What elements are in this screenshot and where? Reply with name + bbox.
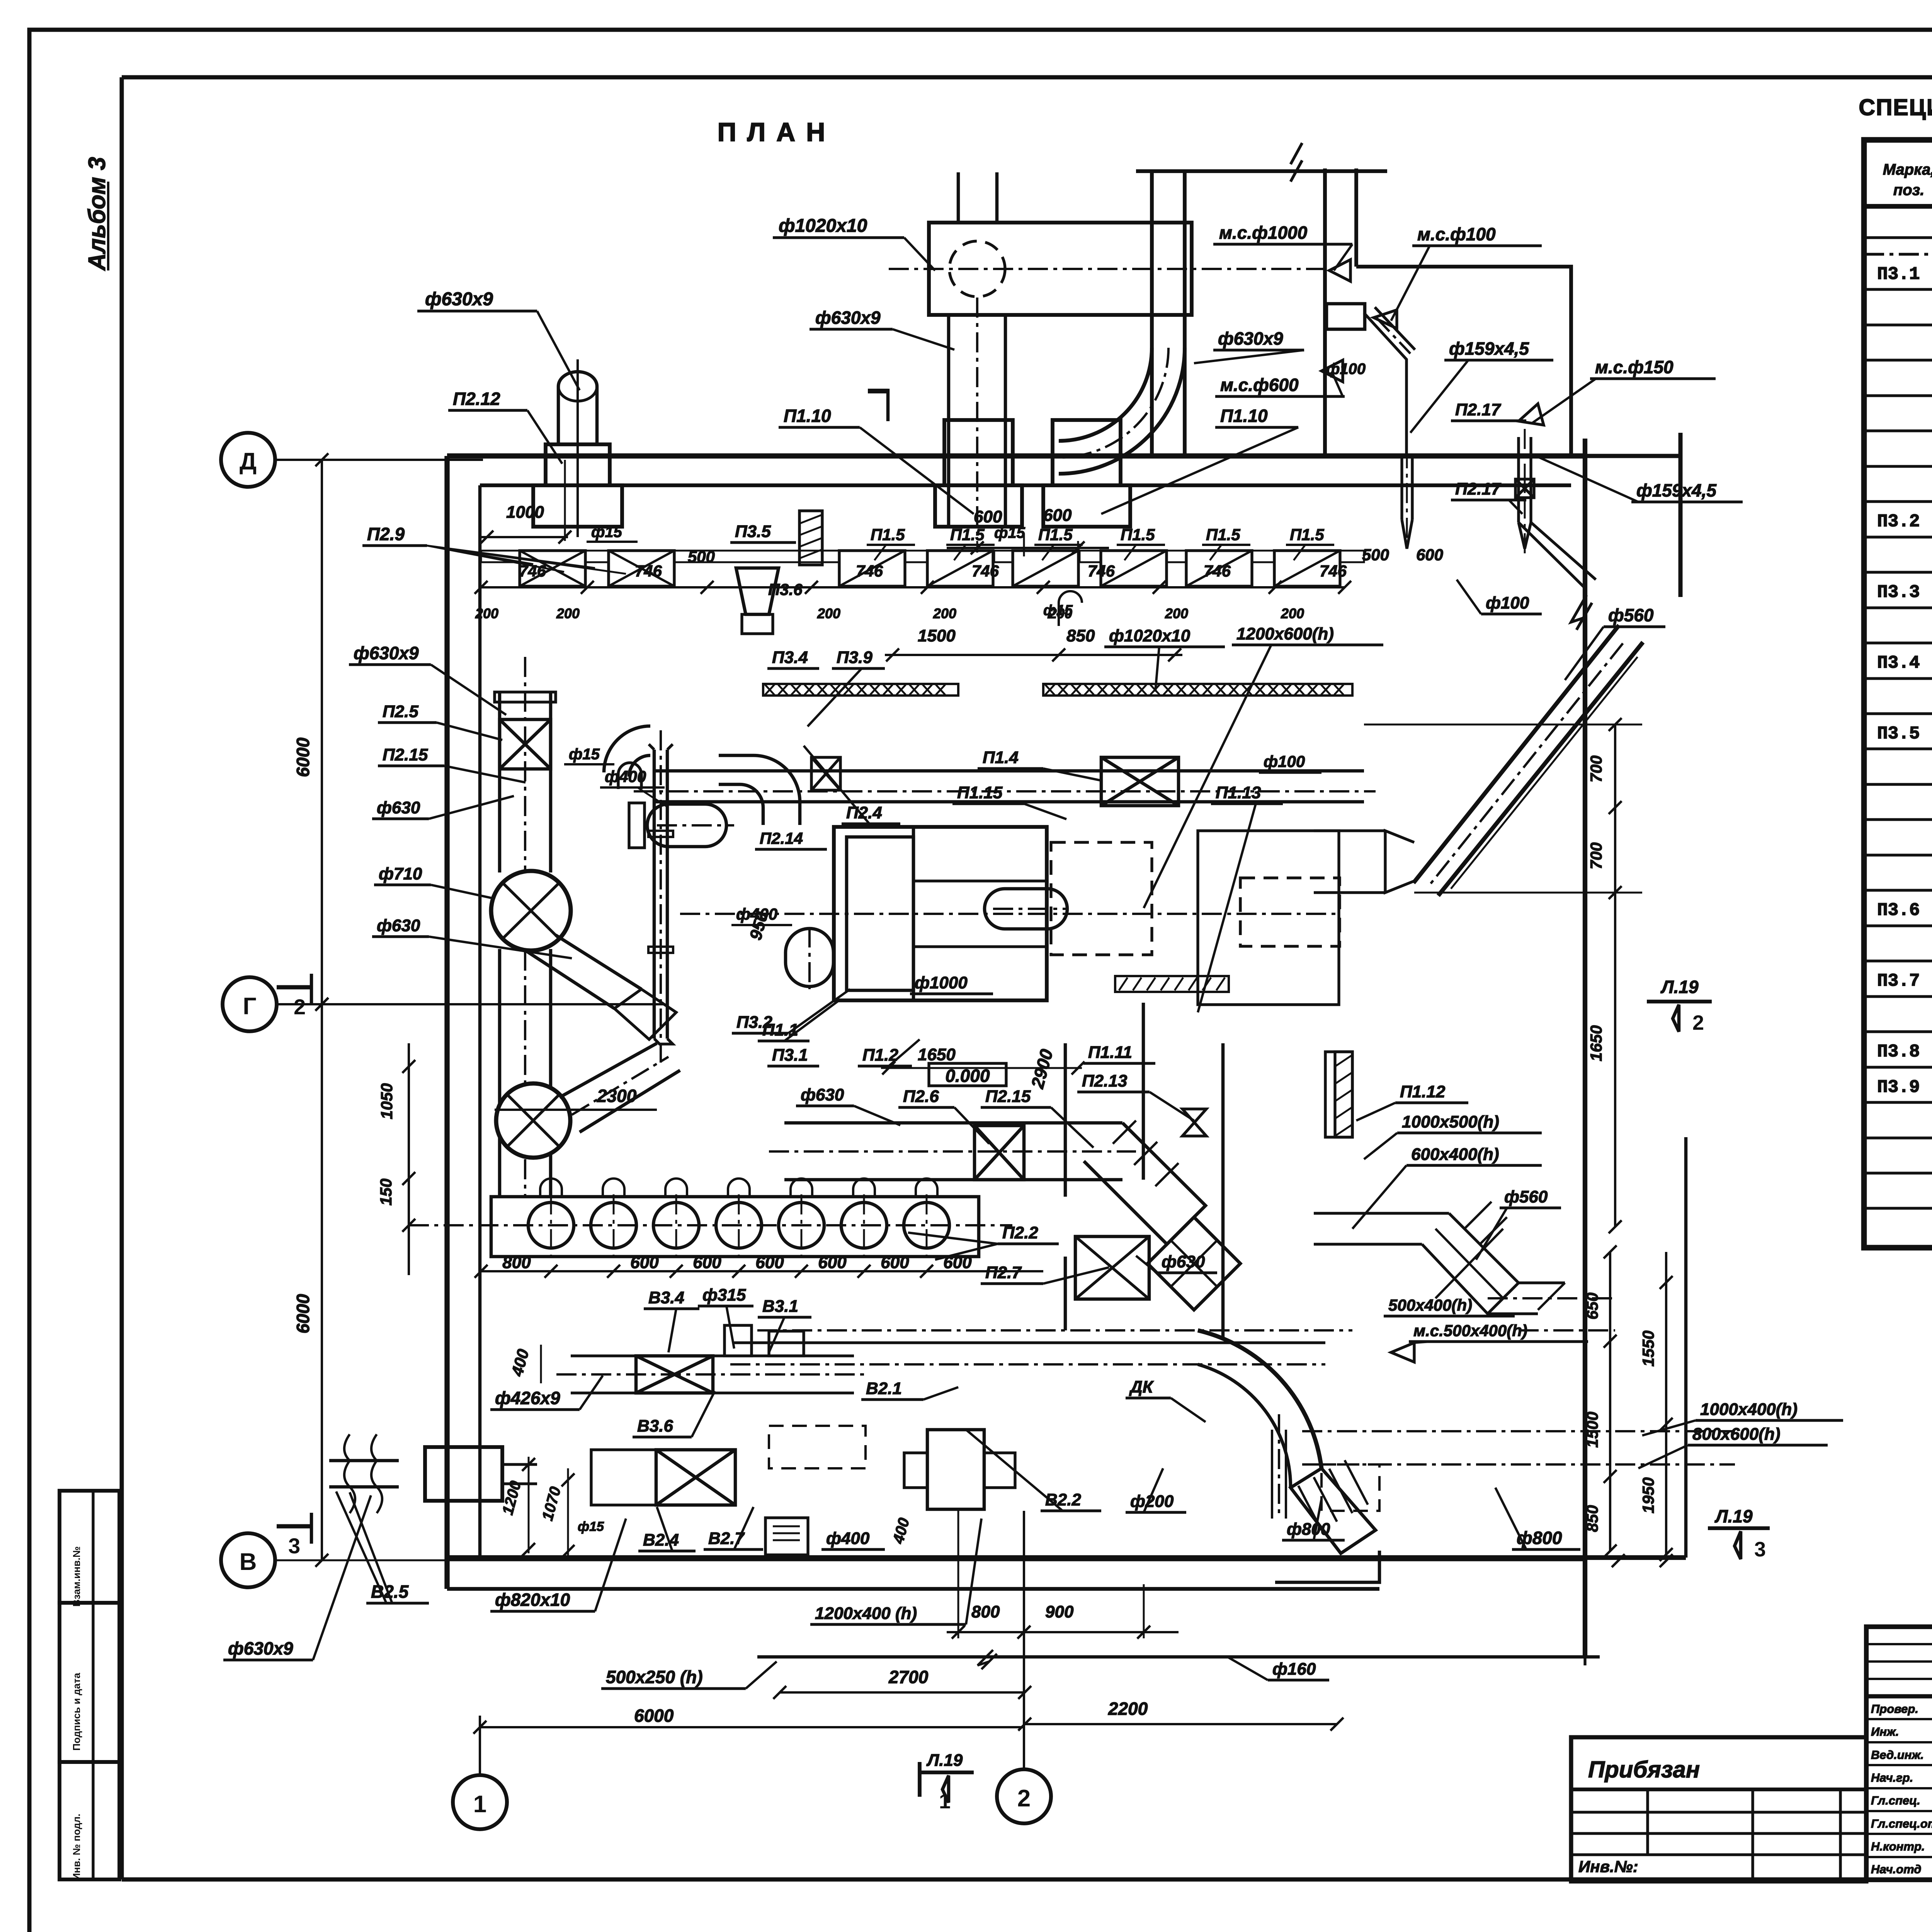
П2.13 bow-tie valve	[1182, 1109, 1206, 1136]
svg-text:П3.9: П3.9	[837, 648, 872, 667]
svg-text:ПЛАН: ПЛАН	[718, 117, 836, 147]
П1.10 flange left	[944, 420, 1013, 485]
svg-text:ф1020х10: ф1020х10	[779, 216, 867, 236]
svg-text:1000х500(h): 1000х500(h)	[1402, 1112, 1499, 1131]
П2.17 riser 2	[1517, 437, 1520, 522]
svg-text:м.с.500х400(h): м.с.500х400(h)	[1413, 1321, 1527, 1340]
svg-text:П1.11: П1.11	[1088, 1043, 1132, 1062]
В2 big damper	[656, 1450, 735, 1505]
chamber centerline	[889, 268, 1329, 270]
П2.2 outlet circles	[528, 1202, 574, 1248]
axis В circle	[221, 1533, 275, 1587]
svg-text:900: 900	[1045, 1602, 1074, 1621]
svg-text:200: 200	[933, 605, 956, 621]
svg-text:Прибязан: Прибязан	[1588, 1757, 1700, 1782]
П1.10 flange right	[1053, 420, 1121, 485]
hatch strip	[1115, 976, 1229, 992]
south lower strip	[757, 1655, 1600, 1659]
svg-text:6000: 6000	[634, 1706, 674, 1726]
ф560 diagonal duct	[1413, 625, 1619, 883]
svg-text:Д: Д	[240, 448, 257, 475]
svg-text:600: 600	[974, 507, 1002, 526]
svg-text:600: 600	[693, 1253, 721, 1272]
zigzag duct	[1314, 1212, 1449, 1214]
svg-text:П1.12: П1.12	[1400, 1082, 1446, 1101]
П1.4 damper X	[1101, 757, 1179, 806]
svg-text:3: 3	[288, 1534, 300, 1558]
svg-text:П2.15: П2.15	[383, 745, 428, 764]
svg-text:800х600(h): 800х600(h)	[1692, 1425, 1780, 1444]
svg-text:850: 850	[1583, 1505, 1601, 1532]
svg-text:Альбом 3: Альбом 3	[84, 157, 111, 271]
svg-text:150: 150	[377, 1179, 395, 1206]
fan circle 1	[491, 871, 571, 951]
horizontal duct into wall	[1314, 829, 1385, 832]
svg-text:Л.19: Л.19	[926, 1751, 963, 1770]
П2.4 damper box	[811, 757, 840, 790]
crosshatch strip mid	[763, 684, 958, 696]
svg-text:ф1000: ф1000	[915, 973, 968, 992]
svg-text:2: 2	[294, 995, 306, 1019]
svg-text:ф630: ф630	[377, 916, 420, 935]
svg-text:850: 850	[1066, 626, 1095, 645]
grille boxes П1.5 row	[520, 551, 585, 586]
svg-text:800: 800	[502, 1253, 531, 1272]
svg-text:П1.10: П1.10	[1220, 406, 1268, 426]
west wall outer	[444, 456, 449, 1589]
svg-text:200: 200	[1165, 605, 1188, 621]
svg-text:В3.6: В3.6	[637, 1417, 673, 1435]
dim col right 650/1500/850	[1609, 1252, 1611, 1551]
svg-text:П2.17: П2.17	[1455, 400, 1502, 419]
В2 system left pipes	[329, 1461, 399, 1487]
svg-text:ф630х9: ф630х9	[228, 1638, 293, 1658]
axis 2 circle	[997, 1769, 1051, 1823]
vertical duct from chamber	[947, 315, 951, 527]
svg-text:1000: 1000	[506, 503, 544, 522]
svg-text:Л.19: Л.19	[1660, 977, 1699, 997]
svg-text:700: 700	[1587, 755, 1605, 782]
break mark bottom	[978, 1650, 997, 1669]
left sidebar boxes	[60, 1491, 119, 1603]
north wall inner	[480, 483, 1571, 487]
svg-text:П3.7: П3.7	[1877, 971, 1920, 991]
svg-text:В2.1: В2.1	[866, 1379, 902, 1398]
small flange pair	[629, 803, 645, 848]
svg-text:П2.13: П2.13	[1082, 1071, 1127, 1090]
svg-text:П3.8: П3.8	[1877, 1042, 1920, 1062]
svg-text:1050: 1050	[378, 1083, 396, 1119]
svg-text:ф15: ф15	[578, 1519, 604, 1534]
П2.2 centerline	[409, 1224, 1012, 1226]
svg-text:СПЕЦИФИКАЦИЯ ОТОПИТЕЛЬНО - ВЕН: СПЕЦИФИКАЦИЯ ОТОПИТЕЛЬНО - ВЕНТИЛЯЦИОННО…	[1859, 94, 1932, 120]
svg-text:1200х600(h): 1200х600(h)	[1236, 624, 1334, 643]
svg-text:П2.14: П2.14	[760, 829, 803, 847]
vertical guides bottom	[957, 1509, 959, 1584]
П1.4 duct lines	[653, 769, 1364, 773]
dash-dot ducts right of zigzag	[1488, 1297, 1615, 1299]
svg-text:Подпись и дата: Подпись и дата	[71, 1673, 82, 1751]
wall step right bottom	[1275, 1551, 1379, 1582]
svg-text:ф630х9: ф630х9	[1218, 328, 1283, 349]
svg-text:ф560: ф560	[1608, 605, 1654, 625]
П2.2 duct rectangle	[491, 1197, 979, 1257]
м.с.ф100 flag	[1374, 310, 1397, 328]
0.000 boxed	[929, 1063, 1006, 1086]
svg-text:Провер.: Провер.	[1871, 1702, 1918, 1716]
svg-text:П2.6: П2.6	[903, 1087, 939, 1106]
svg-text:ф159х4,5: ф159х4,5	[1449, 338, 1529, 359]
svg-text:Н.контр.: Н.контр.	[1871, 1840, 1925, 1853]
svg-text:ф1020х10: ф1020х10	[1109, 626, 1190, 645]
svg-text:м.с.ф1000: м.с.ф1000	[1219, 223, 1308, 243]
upper duct shaft verticals	[1150, 171, 1154, 456]
east wall upper notch	[1356, 267, 1571, 456]
axis Д circle	[221, 433, 275, 487]
chamber dashed circle	[949, 241, 1005, 297]
svg-text:ф630х9: ф630х9	[425, 289, 493, 310]
east outer wall top	[1679, 433, 1683, 597]
svg-text:600х400(h): 600х400(h)	[1411, 1145, 1499, 1164]
svg-text:П2.2: П2.2	[1002, 1223, 1038, 1242]
dim line 746 row	[481, 586, 1345, 588]
svg-text:В3.1: В3.1	[762, 1297, 798, 1316]
svg-text:1: 1	[473, 1791, 486, 1818]
svg-text:2: 2	[1017, 1785, 1031, 1812]
svg-text:Гл.спец.отд: Гл.спец.отд	[1871, 1817, 1932, 1830]
П3.9 hatched block	[799, 511, 822, 565]
ф200 vertical pipe	[1278, 1414, 1280, 1519]
svg-text:1550: 1550	[1639, 1330, 1657, 1366]
svg-text:746: 746	[1320, 562, 1347, 580]
svg-text:Инв.№:: Инв.№:	[1578, 1857, 1638, 1876]
svg-text:П3.6: П3.6	[1877, 900, 1920, 920]
lower dash-dot ducts	[1302, 1430, 1735, 1432]
svg-text:Г: Г	[243, 993, 256, 1020]
svg-text:Вед.инж.: Вед.инж.	[1871, 1748, 1924, 1762]
svg-text:6000: 6000	[293, 1294, 313, 1333]
svg-text:600: 600	[755, 1253, 784, 1272]
stadium 2	[985, 889, 1067, 929]
hatched shaft П1.12	[1335, 1052, 1352, 1137]
svg-text:ф400: ф400	[826, 1529, 870, 1548]
transition to horizontal	[1385, 831, 1414, 893]
П2.5 damper	[500, 719, 551, 769]
svg-text:м.с.ф600: м.с.ф600	[1220, 375, 1299, 395]
П3.6 funnel	[736, 568, 779, 614]
dim col outer 1550/1950	[1665, 1252, 1667, 1554]
svg-text:П3.5: П3.5	[1877, 724, 1920, 744]
svg-text:м.с.ф150: м.с.ф150	[1595, 357, 1673, 377]
svg-text:В3.4: В3.4	[648, 1288, 684, 1307]
svg-text:П3.9: П3.9	[1877, 1077, 1920, 1097]
svg-text:2: 2	[1692, 1011, 1704, 1034]
svg-text:200: 200	[556, 605, 580, 621]
svg-text:6000: 6000	[293, 737, 313, 777]
svg-text:П1.5: П1.5	[1206, 526, 1240, 544]
svg-text:Инв. № подл.: Инв. № подл.	[71, 1814, 82, 1881]
svg-text:П3.4: П3.4	[772, 648, 808, 667]
dashed box 1	[1051, 842, 1152, 955]
corridor duct double walls	[653, 750, 656, 1039]
axis Г line	[277, 1003, 665, 1005]
dashed small boxes	[1321, 1464, 1379, 1511]
dims 700 700 1650 column	[1614, 724, 1616, 1227]
duct top flange	[495, 692, 556, 702]
title block outer	[1866, 1627, 1932, 1880]
axis Д line	[275, 459, 483, 461]
svg-text:ф820х10: ф820х10	[495, 1590, 570, 1610]
svg-text:500: 500	[1362, 546, 1389, 564]
svg-text:П1.5: П1.5	[1038, 526, 1073, 544]
interior verticals mid-plan	[1064, 1043, 1067, 1197]
П2.1 fan X	[1075, 1236, 1149, 1299]
ДК hatched diagonal	[1291, 1468, 1376, 1553]
svg-text:П3.1: П3.1	[1877, 264, 1920, 284]
section mark 3 at В	[277, 1524, 313, 1529]
П2.12 flange box	[546, 444, 610, 485]
svg-text:800: 800	[971, 1602, 1000, 1621]
top break mark	[1291, 143, 1302, 182]
right wall second	[1684, 1137, 1688, 1558]
svg-text:ф100: ф100	[1486, 594, 1529, 612]
svg-text:П2.12: П2.12	[453, 389, 500, 409]
svg-text:1950: 1950	[1639, 1477, 1657, 1513]
svg-text:ф100: ф100	[1326, 361, 1366, 378]
svg-text:П1.1: П1.1	[762, 1020, 798, 1039]
svg-text:ф400: ф400	[605, 767, 646, 786]
svg-text:3: 3	[1754, 1538, 1766, 1561]
svg-text:1650: 1650	[918, 1045, 956, 1064]
м.с.ф1000 flag	[1329, 260, 1350, 281]
Л.19/2 section symbol	[1647, 1000, 1712, 1003]
left attachment table	[1571, 1737, 1866, 1881]
svg-text:П1.5: П1.5	[1290, 526, 1324, 544]
diamond transition П2.1	[1148, 1217, 1240, 1310]
svg-text:В: В	[240, 1549, 257, 1575]
svg-text:П2.5: П2.5	[383, 702, 418, 721]
east verticals lower	[1583, 1558, 1586, 1665]
section mark I	[886, 389, 890, 421]
svg-text:П1.13: П1.13	[1216, 783, 1261, 802]
fan circle 2	[496, 1083, 570, 1158]
svg-text:200: 200	[817, 605, 840, 621]
fan unit П3.1 block	[834, 827, 1047, 1000]
south wall outer	[447, 1587, 1379, 1591]
П2.5 duct verticals	[498, 692, 502, 872]
svg-text:600: 600	[1416, 546, 1443, 564]
svg-text:1: 1	[939, 1790, 951, 1813]
top shaft horizontal	[1136, 169, 1387, 173]
dashed box 2	[1240, 878, 1340, 946]
spec table grid	[1864, 140, 1932, 1248]
svg-text:П3.6: П3.6	[768, 580, 803, 599]
svg-text:ф710: ф710	[379, 864, 422, 883]
svg-text:1500: 1500	[1583, 1412, 1601, 1447]
svg-text:2700: 2700	[888, 1667, 929, 1687]
svg-text:ф560: ф560	[1504, 1187, 1548, 1206]
water hatch box	[765, 1518, 808, 1555]
Л.19/1 section symbol	[918, 1762, 922, 1797]
svg-text:П3.5: П3.5	[735, 522, 771, 541]
svg-text:Гл.спец.: Гл.спец.	[1871, 1794, 1920, 1807]
svg-text:600: 600	[881, 1253, 909, 1272]
slanted pipe from wall	[1364, 313, 1406, 456]
dim col x1058	[408, 1043, 410, 1275]
dim row 800/600	[481, 1270, 1043, 1272]
svg-text:м.с.ф100: м.с.ф100	[1417, 224, 1496, 244]
stadium silencer 1	[647, 804, 726, 847]
west duct column lower run	[498, 949, 502, 1197]
svg-text:П2.15: П2.15	[985, 1087, 1031, 1106]
svg-text:2300: 2300	[597, 1086, 637, 1106]
svg-text:1200х400 (h): 1200х400 (h)	[815, 1604, 917, 1623]
svg-text:П3.4: П3.4	[1877, 653, 1920, 673]
svg-text:П2.4: П2.4	[846, 803, 882, 822]
svg-text:Нач.отд: Нач.отд	[1871, 1862, 1921, 1876]
svg-text:746: 746	[972, 562, 999, 580]
svg-text:ф15: ф15	[994, 524, 1026, 541]
svg-text:П1.5: П1.5	[950, 526, 985, 544]
svg-text:П2.9: П2.9	[367, 524, 405, 544]
В3 risers	[724, 1325, 752, 1356]
svg-text:П1.15: П1.15	[957, 783, 1003, 802]
wall niche box	[1327, 304, 1365, 329]
В3 duct band	[571, 1354, 854, 1357]
svg-text:ф315: ф315	[702, 1286, 746, 1304]
svg-text:ф160: ф160	[1272, 1660, 1316, 1679]
axis 1 circle	[453, 1775, 507, 1829]
svg-text:500х400(h): 500х400(h)	[1388, 1296, 1472, 1314]
svg-text:П3.3: П3.3	[1877, 582, 1920, 602]
svg-text:1000х400(h): 1000х400(h)	[1700, 1400, 1798, 1419]
В2.2 unit	[927, 1430, 984, 1509]
svg-text:ф159х4,5: ф159х4,5	[1636, 480, 1717, 500]
svg-text:ф426х9: ф426х9	[495, 1388, 560, 1408]
hatched wall pieces top	[481, 551, 520, 562]
west wall inner	[478, 485, 482, 1558]
water hatch right top	[1325, 1052, 1352, 1137]
corner duct west	[604, 726, 650, 772]
П2.17 riser pipe	[1400, 456, 1403, 520]
svg-text:500х250 (h): 500х250 (h)	[606, 1667, 703, 1687]
svg-text:650: 650	[1583, 1293, 1601, 1320]
svg-text:П1.10: П1.10	[784, 406, 831, 426]
elbow duct to П1.10 right	[1059, 348, 1185, 474]
svg-text:ф15: ф15	[591, 524, 622, 541]
axis В line	[275, 1560, 1584, 1561]
east wall	[1583, 439, 1587, 1658]
45 duct from fan1	[556, 935, 641, 989]
П2.12 roof stack pipe	[558, 372, 597, 444]
section mark 2 at Г	[277, 985, 313, 990]
bend piece	[614, 989, 676, 1039]
П2.2 connector stubs	[540, 1179, 562, 1197]
svg-text:Инж.: Инж.	[1871, 1725, 1899, 1738]
svg-text:200: 200	[1281, 605, 1304, 621]
solid box right	[1198, 831, 1339, 1005]
chamber box ф1020	[929, 223, 1192, 315]
svg-text:2200: 2200	[1108, 1699, 1148, 1719]
svg-text:П2.7: П2.7	[985, 1263, 1022, 1282]
svg-text:П1.4: П1.4	[983, 748, 1019, 767]
left vertical dim line with 6000s	[321, 460, 323, 1560]
svg-text:600: 600	[818, 1253, 847, 1272]
chamber stub up	[957, 172, 960, 223]
svg-text:600: 600	[1043, 506, 1072, 525]
svg-text:Взам.инв.№: Взам.инв.№	[71, 1546, 82, 1607]
slant duct lower right	[1519, 522, 1584, 587]
south wall inner	[447, 1555, 1686, 1560]
svg-text:ф15: ф15	[569, 746, 600, 763]
ф400 elbow duct right	[719, 755, 800, 825]
upper duct П2.6/П2.15 band	[784, 1121, 1122, 1125]
П2.9 crossed boxes	[520, 551, 585, 586]
svg-text:ф630х9: ф630х9	[815, 308, 881, 328]
svg-text:ф100: ф100	[1264, 752, 1305, 770]
svg-text:ф630: ф630	[801, 1085, 844, 1104]
svg-text:ф630х9: ф630х9	[354, 643, 419, 663]
svg-text:ф800: ф800	[1287, 1520, 1330, 1539]
svg-text:П3.2: П3.2	[1877, 512, 1920, 532]
svg-text:ДК: ДК	[1129, 1378, 1154, 1396]
svg-text:1500: 1500	[918, 626, 956, 645]
bottom duct В2.1	[757, 1329, 1352, 1332]
svg-text:П2.17: П2.17	[1455, 480, 1502, 498]
svg-text:200: 200	[475, 605, 498, 621]
svg-text:В2.4: В2.4	[643, 1531, 679, 1549]
svg-text:Нач.гр.: Нач.гр.	[1871, 1771, 1913, 1784]
svg-text:700: 700	[1587, 842, 1605, 869]
axis Г circle	[223, 977, 277, 1031]
Л.19/3 section symbol	[1708, 1526, 1770, 1530]
svg-text:П1.5: П1.5	[871, 526, 905, 544]
duct 45 up-right from fan2	[560, 1043, 657, 1097]
svg-text:600: 600	[630, 1253, 659, 1272]
vertical stadium П2.14	[786, 929, 833, 986]
svg-text:Л.19: Л.19	[1714, 1506, 1753, 1526]
svg-text:П3.1: П3.1	[772, 1046, 808, 1065]
ф15 valve small	[1059, 591, 1082, 626]
svg-text:ф15: ф15	[1043, 602, 1073, 619]
svg-text:Марка,: Марка,	[1883, 161, 1932, 178]
svg-text:П1.5: П1.5	[1121, 526, 1155, 544]
svg-text:поз.: поз.	[1893, 182, 1924, 199]
north wall outer	[447, 453, 1585, 458]
ф15 U-symbol	[618, 763, 641, 789]
svg-text:ф630: ф630	[377, 798, 420, 817]
В2 flange box	[425, 1447, 502, 1501]
svg-text:1650: 1650	[1587, 1025, 1605, 1061]
big curve duct ДК	[1198, 1330, 1321, 1468]
duct 45 miter to fan	[1084, 1123, 1206, 1244]
